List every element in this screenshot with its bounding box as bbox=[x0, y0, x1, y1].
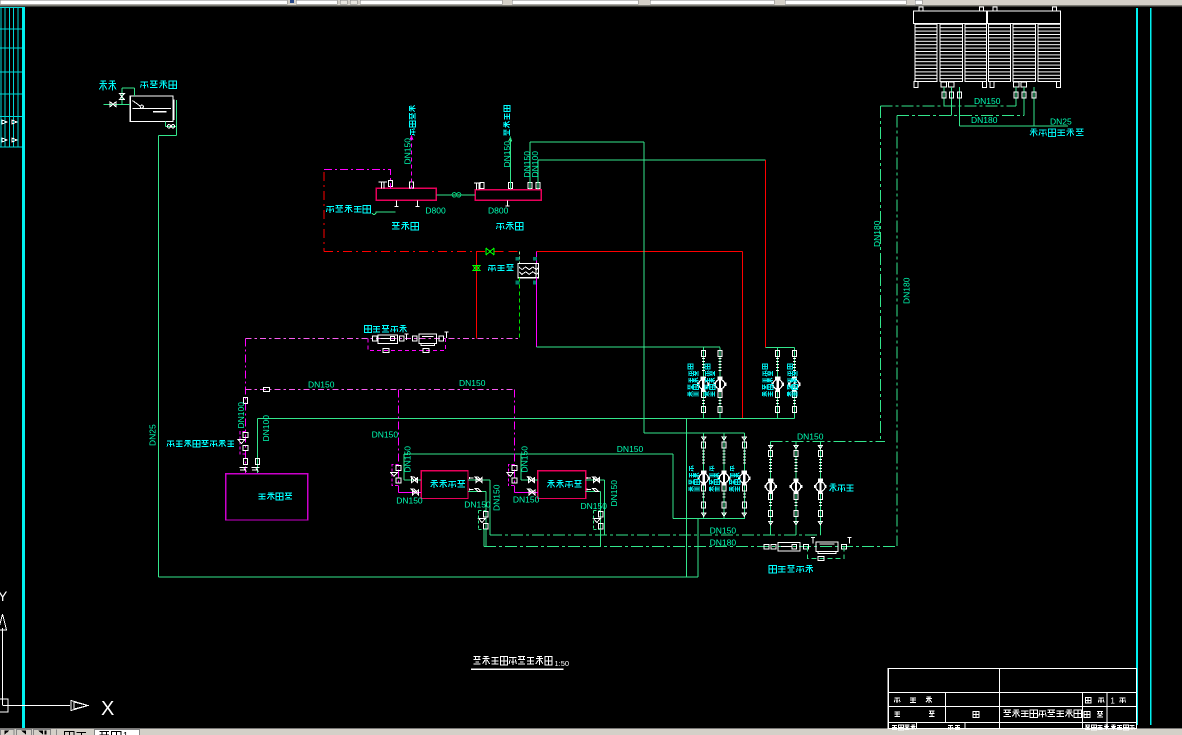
svg-text:DN150: DN150 bbox=[520, 446, 530, 473]
chiller 2 upper-right bbox=[586, 479, 605, 481]
chiller 1 lower-right bbox=[468, 491, 486, 493]
CJK labels bbox=[99, 81, 813, 573]
lower pump group B (cooling pumps) bbox=[771, 441, 885, 443]
port squares bbox=[516, 257, 537, 285]
SECTION:HX bbox=[238, 252, 720, 493]
upper pump group B header bbox=[766, 346, 795, 348]
drawing title bbox=[474, 657, 552, 665]
lower pump group A bbox=[644, 432, 744, 434]
SECTION:LABELS bbox=[99, 81, 823, 573]
chiller 2 bbox=[538, 471, 586, 499]
svg-text:DN100: DN100 bbox=[530, 151, 540, 178]
svg-text:DN150: DN150 bbox=[372, 430, 399, 440]
chiller supply header bbox=[404, 453, 673, 455]
SECTION:BOTTOM bbox=[159, 418, 897, 577]
svg-text:D800: D800 bbox=[425, 206, 446, 216]
SECTION:HEADERS bbox=[258, 136, 795, 454]
bypass under descaler 1 bbox=[368, 339, 446, 351]
svg-text:DN25: DN25 bbox=[1050, 117, 1072, 127]
expansion tank bbox=[130, 96, 174, 122]
svg-text:DN180: DN180 bbox=[710, 538, 737, 548]
plate heat exchanger bbox=[518, 264, 538, 278]
svg-text:DN150: DN150 bbox=[502, 141, 512, 168]
svg-text:DN150: DN150 bbox=[464, 500, 491, 510]
svg-text:DN180: DN180 bbox=[872, 220, 882, 247]
SECTION:CHILLERS bbox=[391, 454, 605, 547]
boiler feed green riser bbox=[257, 418, 259, 474]
collector bbox=[376, 188, 436, 200]
SECTION:PUMPS bbox=[644, 347, 885, 535]
chiller2 left bypass assembly bbox=[508, 465, 514, 486]
cooling tower unit 1 bbox=[914, 7, 1061, 88]
svg-text:DN150: DN150 bbox=[609, 480, 619, 507]
descaler line 1 (magenta dashed) bbox=[245, 338, 519, 340]
boiler bbox=[226, 474, 308, 520]
long teal vertical from distributor bbox=[643, 142, 645, 433]
chiller 1 lower-left bbox=[399, 491, 422, 493]
cooling pump label bbox=[830, 484, 854, 492]
chiller 1 bbox=[421, 471, 468, 499]
DN labels bbox=[147, 138, 823, 548]
SECTION:TITLE bbox=[471, 657, 1136, 730]
fill pipe leader bbox=[372, 212, 396, 215]
svg-text:DN150: DN150 bbox=[617, 444, 644, 454]
makeup water piping bbox=[104, 88, 177, 577]
svg-text:1: 1 bbox=[1110, 696, 1115, 705]
heat exchanger stubs bbox=[519, 252, 521, 264]
descaler 2 on condenser line bbox=[764, 538, 852, 554]
distributor top valves bbox=[474, 183, 481, 190]
svg-text:X: X bbox=[101, 698, 114, 720]
svg-text:DN150: DN150 bbox=[513, 494, 540, 504]
right cyan frame lines bbox=[1136, 8, 1138, 725]
svg-text:DN180: DN180 bbox=[971, 115, 998, 125]
left thick cyan frame line bbox=[22, 7, 25, 728]
top toolbar sliver bbox=[0, 0, 1182, 7]
svg-text:DN150: DN150 bbox=[710, 526, 737, 536]
svg-text:DN150: DN150 bbox=[308, 380, 335, 390]
magenta boiler return main bbox=[244, 339, 246, 474]
svg-text:DN150: DN150 bbox=[974, 96, 1001, 106]
feet bbox=[914, 82, 918, 88]
red hot water loop bbox=[324, 160, 766, 418]
svg-text:DN150: DN150 bbox=[403, 138, 413, 165]
UCS icon bottom-left bbox=[0, 588, 114, 720]
chilled supply to pumps bbox=[537, 346, 720, 348]
green valve on red main bbox=[473, 248, 494, 271]
svg-text:DN100: DN100 bbox=[236, 402, 246, 429]
svg-text:Y: Y bbox=[0, 588, 8, 604]
link pipe bbox=[436, 194, 475, 196]
svg-text:DN150: DN150 bbox=[797, 432, 824, 442]
chiller 2 lower-left bbox=[515, 491, 538, 493]
pump rotated labels bbox=[688, 364, 797, 491]
bypass under descaler 2 bbox=[807, 547, 844, 559]
svg-text:1:50: 1:50 bbox=[555, 659, 570, 668]
secondary risers bbox=[519, 278, 521, 339]
distributor bbox=[475, 190, 541, 201]
bottom status bar bbox=[0, 729, 1182, 735]
svg-text:DN150: DN150 bbox=[403, 446, 413, 473]
connection boxes under towers bbox=[941, 82, 947, 87]
svg-text:D800: D800 bbox=[488, 206, 509, 216]
chiller1 left bypass assembly bbox=[392, 465, 398, 486]
magenta quick-fill line top-left bbox=[324, 170, 391, 189]
tower supply/return dash-dot mains bbox=[881, 106, 1069, 546]
svg-text:1: 1 bbox=[123, 731, 128, 735]
svg-text:DN150: DN150 bbox=[492, 484, 502, 511]
valves above boiler bbox=[243, 459, 247, 465]
svg-text:DN150: DN150 bbox=[396, 496, 423, 506]
upper pump group A (chilled water pumps) bbox=[697, 347, 710, 418]
svg-text:DN100: DN100 bbox=[261, 415, 271, 442]
distributor side risers bbox=[529, 142, 531, 190]
svg-text:DN180: DN180 bbox=[902, 277, 912, 304]
labels tower piping bbox=[872, 96, 1072, 304]
distributor main riser bbox=[509, 138, 511, 190]
svg-text:DN25: DN25 bbox=[147, 424, 157, 446]
descaler 1 device bbox=[372, 332, 448, 346]
SECTION:BOILER bbox=[226, 418, 308, 520]
chiller 2 lower-right bbox=[586, 491, 601, 493]
tower stub pipes bbox=[944, 87, 1034, 126]
collector riser dashed magenta bbox=[411, 137, 413, 189]
collector top valves bbox=[379, 182, 388, 188]
condenser water lines bbox=[490, 534, 821, 536]
chiller1 outlet valve assembly bbox=[479, 512, 489, 530]
chiller 2 upper-left bbox=[520, 454, 522, 480]
check valve assembly on boiler line bbox=[240, 432, 245, 454]
louver columns bbox=[915, 24, 1061, 82]
svg-text:DN150: DN150 bbox=[459, 378, 486, 388]
chiller 1 upper-left bbox=[403, 454, 405, 480]
left ladder grid bbox=[0, 7, 22, 147]
title block texts bbox=[892, 696, 1134, 730]
boiler supply horizontal bbox=[258, 417, 795, 419]
bottom main loop bbox=[159, 576, 699, 578]
svg-text:DN150: DN150 bbox=[581, 501, 608, 511]
chiller2 outlet valve assembly bbox=[593, 512, 603, 530]
collector bottom stems bbox=[395, 200, 510, 206]
title block bbox=[888, 669, 1136, 729]
chiller 1 upper-right bbox=[468, 479, 490, 481]
chiller return drops bbox=[398, 389, 400, 492]
SECTION:TANK bbox=[104, 88, 177, 577]
